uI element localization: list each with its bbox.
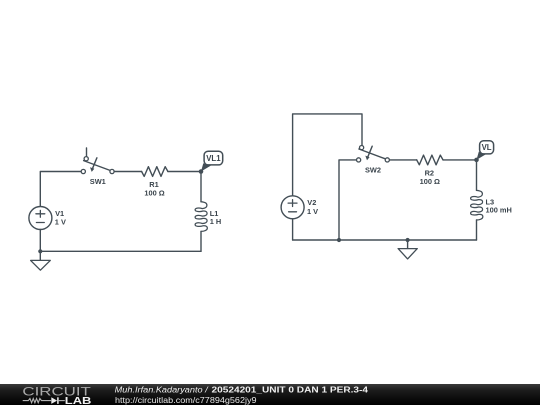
svg-text:100 mH: 100 mH — [486, 206, 512, 215]
svg-text:1 V: 1 V — [55, 218, 66, 227]
SW1 left terminal pin 1 — [81, 169, 85, 173]
flag VL1 box — [204, 151, 223, 165]
SW1 toggle arrow — [93, 158, 97, 169]
switch SW2 — [357, 146, 390, 162]
ground triangle — [31, 260, 51, 270]
svg-text:1 H: 1 H — [210, 217, 222, 226]
switch SW1 — [81, 148, 114, 174]
svg-text:SW1: SW1 — [90, 177, 106, 186]
V2 plus sign — [288, 200, 297, 207]
SW1 right terminal pin 3 — [110, 169, 114, 173]
V1 plus sign — [36, 210, 45, 217]
SW2 toggle arrow — [368, 146, 372, 157]
inductor L3 — [471, 190, 483, 220]
wire: L1 to bottom rail — [200, 231, 202, 251]
SW1 top terminal pin 2 — [84, 157, 88, 161]
V1 circle body — [29, 207, 52, 230]
wire: V1 bottom to ground junction — [39, 230, 41, 252]
wire: right circuit top rail from V2 to SW2 — [293, 114, 362, 196]
ground symbol right circuit — [398, 240, 417, 259]
svg-text:VL: VL — [482, 143, 492, 152]
wire: L3 to bottom rail — [476, 220, 478, 240]
svg-text:http://circuitlab.com/c77894g5: http://circuitlab.com/c77894g562jy9 — [115, 396, 257, 405]
junction node at VL — [474, 158, 479, 163]
flag VL pointer wedge — [477, 152, 487, 160]
wire: R2 to node VL — [443, 159, 477, 161]
V2 minus sign — [289, 211, 297, 213]
wire: node down to L3 — [476, 160, 478, 191]
wire: SW2 right terminal to R2 — [390, 159, 417, 161]
flag VL1 pointer wedge — [201, 163, 211, 171]
svg-text:SW2: SW2 — [365, 166, 381, 175]
CircuitLab logo diode — [51, 398, 57, 405]
svg-text:LAB: LAB — [65, 396, 92, 405]
resistor R2 — [417, 155, 443, 165]
ground stem wire — [407, 240, 409, 249]
SW1 arm — [84, 161, 110, 171]
svg-text:VL1: VL1 — [206, 154, 221, 163]
junction dot SW2 branch at bottom rail — [337, 238, 341, 242]
voltage source V2 — [281, 196, 304, 219]
SW2 top terminal pin 2 — [360, 146, 364, 150]
resistor R1 — [142, 167, 168, 177]
svg-text:20524201_UNIT 0 DAN 1 PER.3-4: 20524201_UNIT 0 DAN 1 PER.3-4 — [212, 386, 369, 395]
wire: right circuit bottom rail — [293, 239, 477, 241]
CircuitLab logo resistor zigzag — [23, 399, 51, 403]
SW2 right terminal pin 3 — [385, 158, 389, 162]
wire: node down to L1 — [200, 172, 202, 202]
wire: left circuit bottom rail — [40, 250, 201, 252]
ground triangle — [398, 249, 417, 259]
SW2 arm — [359, 149, 385, 159]
junction dot ground at bottom rail — [406, 238, 410, 242]
svg-text:100 Ω: 100 Ω — [144, 189, 164, 198]
wire: SW1 right terminal to R1 — [114, 171, 141, 173]
footer bar — [0, 384, 540, 405]
ground symbol left circuit — [31, 251, 51, 270]
junction node at VL1 — [199, 169, 204, 174]
ground stem wire — [39, 251, 41, 260]
V1 minus sign — [36, 222, 44, 224]
svg-text:Muh.Irfan.Kadaryanto /: Muh.Irfan.Kadaryanto / — [115, 386, 209, 395]
wire: left circuit top-left corner V1 to SW1 left terminal — [40, 172, 81, 207]
svg-text:1 V: 1 V — [307, 207, 318, 216]
wire: R1 to node VL1 — [168, 171, 201, 173]
wire: V2 bottom to bottom rail — [292, 219, 294, 240]
svg-text:100 Ω: 100 Ω — [420, 177, 440, 186]
SW2 left terminal pin 1 — [357, 158, 361, 162]
voltage source V1 — [29, 207, 52, 230]
inductor L1 — [195, 202, 207, 232]
flag VL box — [480, 141, 494, 154]
wire: SW2 left terminal down to bottom rail — [339, 160, 357, 240]
V2 circle body — [281, 196, 304, 219]
SW1 top throw stub wire — [86, 148, 88, 157]
junction dot left circuit ground node — [38, 249, 42, 253]
